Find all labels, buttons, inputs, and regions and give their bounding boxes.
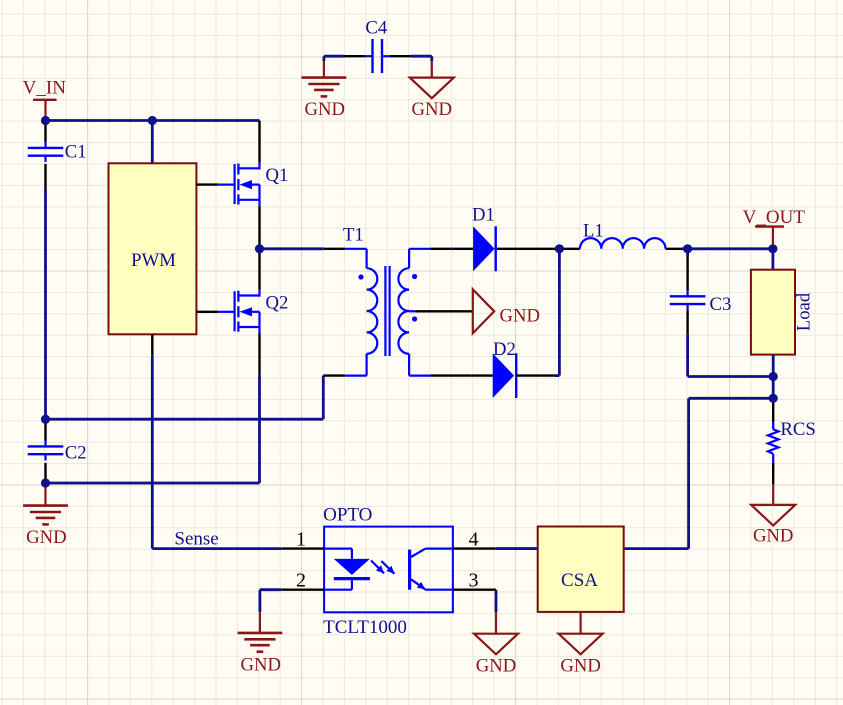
svg-text:Sense: Sense: [174, 529, 218, 550]
svg-text:Q1: Q1: [266, 165, 289, 186]
svg-text:GND: GND: [412, 99, 453, 120]
svg-text:RCS: RCS: [780, 419, 815, 440]
svg-text:Q2: Q2: [266, 292, 289, 313]
svg-text:PWM: PWM: [131, 250, 176, 271]
svg-text:4: 4: [469, 529, 479, 551]
svg-text:V_IN: V_IN: [23, 78, 67, 99]
svg-text:C3: C3: [710, 294, 732, 315]
svg-text:C2: C2: [65, 443, 87, 464]
svg-text:1: 1: [296, 529, 306, 551]
svg-text:TCLT1000: TCLT1000: [323, 617, 407, 638]
svg-text:GND: GND: [500, 305, 541, 326]
svg-text:Load: Load: [794, 292, 815, 331]
svg-text:2: 2: [296, 570, 306, 592]
svg-text:GND: GND: [305, 99, 346, 120]
svg-text:V_OUT: V_OUT: [743, 207, 806, 228]
svg-text:3: 3: [469, 570, 479, 592]
svg-text:GND: GND: [753, 526, 794, 547]
svg-text:D2: D2: [493, 339, 516, 360]
svg-text:D1: D1: [472, 205, 495, 226]
svg-text:CSA: CSA: [561, 570, 598, 591]
svg-text:C4: C4: [365, 18, 387, 39]
svg-text:GND: GND: [476, 656, 517, 677]
svg-text:OPTO: OPTO: [323, 505, 372, 526]
svg-text:GND: GND: [560, 656, 601, 677]
svg-text:C1: C1: [65, 142, 87, 163]
svg-text:GND: GND: [241, 654, 282, 675]
svg-text:GND: GND: [26, 527, 67, 548]
svg-text:T1: T1: [343, 225, 364, 246]
